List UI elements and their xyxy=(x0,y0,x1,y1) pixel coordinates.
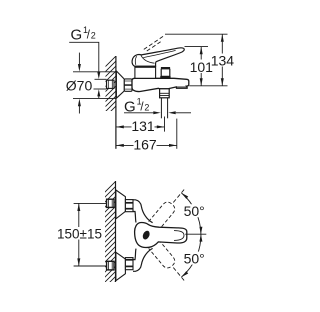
spout tip extension line xyxy=(176,119,178,149)
wall hatching (bottom diagram) xyxy=(103,179,118,299)
hex nut top (bottom diagram) xyxy=(125,200,133,212)
body neck bottom (bottom diagram) xyxy=(133,248,153,271)
lever hole xyxy=(141,230,151,241)
svg-text:G: G xyxy=(71,26,83,43)
dimension 150±15 line xyxy=(78,203,80,266)
G1/2 leader line + arrows xyxy=(69,42,99,72)
square wall fitting bottom (bottom diagram) xyxy=(107,261,114,270)
lever internal detail lines xyxy=(141,55,155,63)
raised lever position (dashed) xyxy=(144,35,165,49)
svg-text:Ø70: Ø70 xyxy=(66,78,93,94)
escutcheon cone top (bottom diagram) xyxy=(116,190,126,219)
label G1/2 (hose) xyxy=(124,97,149,116)
escutcheon cone (top diagram) xyxy=(116,71,124,98)
wall hatching (top diagram) xyxy=(103,54,118,129)
150±15 extension lines xyxy=(74,202,107,204)
aerator detail line xyxy=(176,86,187,88)
rotated lever position +50 (dashed, up) xyxy=(149,185,191,231)
lever handle + dome (top diagram) xyxy=(132,48,184,67)
dimension Ø70 extension lines xyxy=(73,71,116,73)
union nut (top diagram) xyxy=(124,79,132,91)
wall (top diagram) xyxy=(115,56,117,149)
centre line xyxy=(185,233,206,235)
svg-text:167: 167 xyxy=(133,137,157,153)
svg-text:150±15: 150±15 xyxy=(57,226,102,241)
arc arrowheads at centre line xyxy=(199,227,202,234)
dimension Ø70 arrows xyxy=(78,53,80,65)
shower hose outlet tubes xyxy=(160,98,162,119)
svg-text:101: 101 xyxy=(190,59,214,75)
hex nut bottom (bottom diagram) xyxy=(125,258,133,270)
angle arc bottom xyxy=(181,234,201,277)
square wall fitting top (bottom diagram) xyxy=(107,199,114,207)
faucet body + spout + aerator silhouette (top diagram) xyxy=(132,78,189,91)
label 101 xyxy=(193,60,211,74)
hose centre extension line xyxy=(164,117,166,132)
label 50 deg top xyxy=(184,204,207,217)
label 50 deg bottom xyxy=(184,252,207,265)
lever tip inner line xyxy=(174,231,184,241)
dimension 131 xyxy=(116,126,164,128)
escutcheon cone bottom (bottom diagram) xyxy=(116,252,126,280)
svg-text:50°: 50° xyxy=(184,250,205,266)
lever (solid, bottom diagram) xyxy=(135,223,187,248)
dimension 167 xyxy=(116,144,176,146)
rotated lever position -50 (dashed, down) xyxy=(149,239,191,285)
svg-text:2: 2 xyxy=(91,31,96,41)
hose connector nut xyxy=(160,89,170,98)
G1/2 hose dimension arrows xyxy=(124,112,153,114)
cartridge collar xyxy=(135,67,156,78)
label G1/2 (top) xyxy=(71,25,96,44)
svg-text:2: 2 xyxy=(144,103,149,113)
svg-text:131: 131 xyxy=(131,118,155,134)
dimension 101 line xyxy=(200,47,202,86)
svg-text:134: 134 xyxy=(211,53,235,69)
body neck top (bottom diagram) xyxy=(133,200,153,223)
extension line at raised lever tip (134 top) xyxy=(165,33,228,35)
label 134 xyxy=(213,54,233,67)
dimension 134 line xyxy=(221,34,223,86)
svg-text:50°: 50° xyxy=(184,203,205,219)
lever dome base thick line xyxy=(135,66,156,68)
diverter knob xyxy=(161,69,170,77)
angle arc top xyxy=(181,193,201,234)
G1/2 nut extension lines (wall union) xyxy=(95,78,107,80)
square wall fitting (top diagram) xyxy=(107,80,115,88)
bottom reference line (spout bottom) xyxy=(189,85,227,87)
extension line at lever tip (101 top) xyxy=(185,46,209,48)
wall (bottom diagram) xyxy=(115,181,117,282)
